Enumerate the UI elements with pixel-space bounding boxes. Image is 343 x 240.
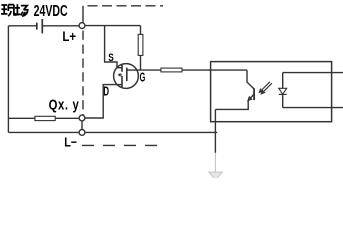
ground symbol	[209, 172, 223, 180]
terminal node L-	[79, 130, 85, 136]
phototransistor collector lead	[247, 70, 254, 89]
LED anode wire	[282, 73, 284, 89]
load resistor body	[35, 116, 55, 120]
boundary solid stub above L+	[82, 6, 84, 23]
wire battery to L+ node	[43, 25, 79, 27]
wire drain to Qx.y node	[85, 85, 117, 118]
resistor R1 lead bottom	[140, 55, 142, 70]
LED triangle	[279, 88, 287, 94]
svg-text:L+: L+	[62, 29, 76, 44]
Q1 drain stub	[117, 84, 122, 86]
label S	[108, 52, 114, 64]
svg-text:L−: L−	[64, 134, 77, 149]
Q1 body arrow	[119, 74, 122, 77]
phototransistor base bar	[253, 88, 255, 100]
optocoupler box U1	[211, 62, 332, 122]
wire L- rail left	[8, 131, 79, 133]
wire L+ node to resistor R1	[85, 25, 141, 27]
load resistor wire left	[8, 117, 35, 119]
wire R2 to optocoupler collector	[182, 69, 247, 71]
terminal node L+	[79, 23, 85, 29]
Q1 channel top segment	[121, 64, 123, 72]
Q1 source stub	[117, 67, 122, 69]
Q1 channel bottom segment	[121, 76, 123, 88]
label L-	[64, 134, 77, 149]
wire between terminal nodes	[81, 121, 83, 130]
label G	[140, 71, 146, 86]
svg-text:24VDC: 24VDC	[34, 2, 68, 20]
light arrow 2	[259, 82, 270, 93]
battery plate short (negative)	[36, 23, 38, 30]
label 24VDC	[34, 2, 68, 20]
svg-text:Qx. y: Qx. y	[49, 96, 80, 113]
label 现场 (field) hand-drawn glyphs	[1, 4, 28, 16]
wire source branch	[105, 26, 117, 68]
battery plate long (positive)	[41, 19, 43, 33]
wire gate to resistor R2	[127, 69, 161, 71]
wire left rail	[7, 26, 9, 133]
boundary dashed left	[82, 31, 84, 115]
Q1 gate bar	[126, 68, 128, 82]
label Qx. y	[49, 96, 80, 113]
load resistor wire right	[55, 117, 79, 119]
wire emitter down through box to ground rail	[214, 109, 216, 152]
boundary dashed top	[88, 5, 164, 7]
wire battery left	[8, 25, 36, 27]
svg-text:D: D	[103, 85, 109, 99]
label D	[103, 85, 109, 99]
transistor Q1 MOSFET body circle	[114, 64, 139, 89]
ground stem gray	[214, 153, 216, 172]
wire LED bottom to right edge	[283, 107, 343, 109]
wire LED top to right edge	[283, 72, 343, 74]
resistor R1 body	[138, 34, 143, 55]
label L+	[62, 29, 76, 44]
svg-text:S: S	[108, 52, 114, 64]
resistor R2 body	[161, 68, 182, 72]
LED cathode wire	[282, 94, 284, 107]
resistor R1 lead top	[140, 26, 142, 35]
light arrow 1	[261, 83, 272, 94]
phototransistor emitter lead with arrow	[215, 94, 254, 109]
svg-text:G: G	[140, 71, 146, 86]
boundary dashed bottom	[82, 144, 161, 146]
LED cathode bar	[279, 93, 287, 95]
terminal node Qx.y	[79, 115, 85, 121]
wire L- to ground rail	[85, 131, 217, 133]
